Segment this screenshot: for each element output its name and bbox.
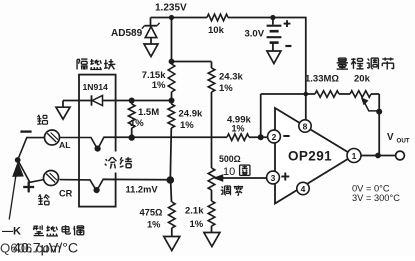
svg-text:AL: AL (59, 140, 70, 150)
svg-text:V: V (387, 132, 394, 143)
svg-text:1%: 1% (147, 220, 161, 230)
svg-text:3.0V: 3.0V (245, 29, 265, 40)
svg-text:20k: 20k (354, 74, 371, 85)
svg-text:OUT: OUT (397, 138, 410, 145)
svg-text:2.1k: 2.1k (185, 206, 204, 217)
svg-text:10k: 10k (208, 25, 225, 36)
svg-text:2: 2 (272, 132, 277, 142)
svg-text:—K: —K (2, 226, 21, 238)
svg-text:OP291: OP291 (288, 149, 332, 164)
svg-text:CR: CR (59, 189, 73, 199)
svg-text:0V = 0°C: 0V = 0°C (352, 184, 390, 194)
svg-text:3: 3 (271, 173, 276, 183)
svg-text:3V = 300°C: 3V = 300°C (352, 193, 400, 203)
svg-text:1%: 1% (130, 118, 144, 129)
svg-text:1: 1 (352, 151, 357, 161)
svg-text:24.3k: 24.3k (219, 72, 243, 83)
svg-text:1%: 1% (190, 219, 204, 230)
svg-text:1%: 1% (219, 83, 233, 94)
svg-text:1%: 1% (152, 80, 166, 91)
svg-text:10: 10 (223, 166, 235, 178)
svg-text:24.9k: 24.9k (179, 109, 203, 120)
svg-text:500Ω: 500Ω (219, 154, 241, 164)
svg-text:40.7μV/°C: 40.7μV/°C (13, 241, 78, 257)
svg-text:4: 4 (301, 184, 306, 194)
svg-text:1.235V: 1.235V (155, 3, 187, 14)
svg-text:1%: 1% (180, 120, 194, 131)
svg-text:AD589: AD589 (111, 28, 143, 39)
svg-text:1N914: 1N914 (83, 82, 109, 92)
svg-text:475Ω: 475Ω (140, 208, 164, 218)
svg-text:1.33MΩ: 1.33MΩ (305, 74, 339, 85)
svg-text:1.5M: 1.5M (138, 107, 159, 118)
svg-text:1%: 1% (232, 124, 245, 134)
svg-text:11.2mV: 11.2mV (126, 185, 159, 195)
svg-text:8: 8 (303, 121, 308, 131)
